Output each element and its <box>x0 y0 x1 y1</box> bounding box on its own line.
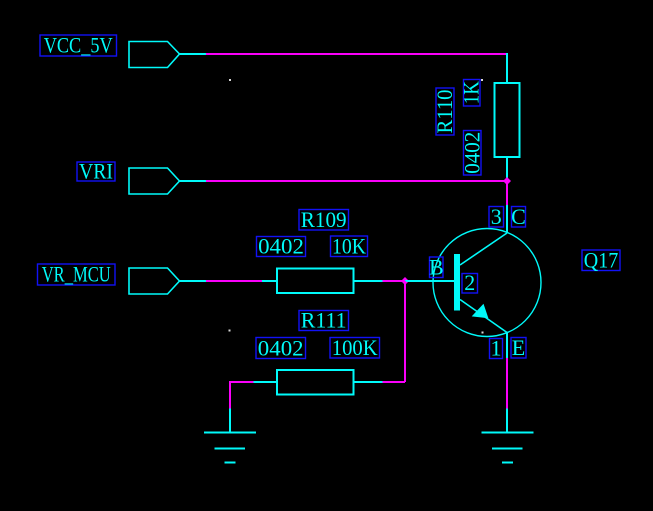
svg-text:0402: 0402 <box>258 234 304 259</box>
svg-text:VRI: VRI <box>79 158 113 183</box>
port VCC_5V <box>129 42 180 68</box>
transistor Q17 circle <box>433 229 541 337</box>
wire R111 to ground corner (magenta) <box>230 381 254 383</box>
pin number 3 <box>489 204 504 229</box>
svg-text:C: C <box>511 204 526 229</box>
wire to R111 right (magenta) <box>383 381 406 383</box>
wire R109 left pin (cyan) <box>262 280 277 282</box>
wire R111 right pin (cyan) <box>354 381 383 383</box>
port VR_MCU <box>129 268 180 294</box>
transistor Q17 emitter arrow <box>472 304 489 319</box>
transistor Q17 base bar <box>454 254 460 311</box>
grid dot <box>229 330 231 332</box>
grid dot <box>482 332 484 334</box>
svg-text:R111: R111 <box>301 307 347 332</box>
label 0402 (R109) <box>257 234 306 259</box>
wire R109 right pin (cyan) <box>354 280 383 282</box>
wire VCC_5V horizontal (magenta) <box>206 53 508 55</box>
svg-text:R110: R110 <box>432 90 457 134</box>
wire R109 to junction (magenta) <box>383 280 406 282</box>
wire base (cyan) <box>405 280 454 282</box>
svg-text:1: 1 <box>491 336 502 361</box>
svg-text:100K: 100K <box>332 335 378 360</box>
ground right <box>482 433 534 463</box>
label VCC_5V <box>40 33 117 58</box>
label 10K <box>331 234 368 259</box>
svg-text:10K: 10K <box>332 234 366 259</box>
svg-text:B: B <box>429 255 444 280</box>
junction node base <box>401 277 409 285</box>
wire junction to collector (magenta) <box>506 181 508 205</box>
label 1K <box>459 80 484 107</box>
ground left <box>204 433 256 463</box>
wire collector pin (cyan) <box>506 205 508 233</box>
wire R110 bottom pin <box>506 157 508 181</box>
wire R111 left pin (cyan) <box>254 381 278 383</box>
label VRI <box>77 158 115 183</box>
ground stem right (cyan) <box>506 409 508 433</box>
wire R110 top pin <box>506 53 508 83</box>
svg-text:R109: R109 <box>301 207 347 232</box>
grid dot <box>481 79 483 81</box>
svg-text:VR_MCU: VR_MCU <box>42 262 111 287</box>
grid dot <box>229 79 231 81</box>
label R109 <box>299 207 349 232</box>
svg-text:Q17: Q17 <box>584 247 619 272</box>
svg-text:0402: 0402 <box>258 335 304 360</box>
label 100K <box>330 335 380 360</box>
label Q17 <box>582 247 620 272</box>
label 0402 (R110) <box>460 131 485 176</box>
resistor R110 body <box>495 83 520 157</box>
wire VRI horizontal (magenta) <box>206 180 507 182</box>
label 0402 (R111) <box>256 335 306 360</box>
pin name C <box>511 204 526 229</box>
transistor Q17 collector line <box>460 233 507 265</box>
pin name B <box>429 255 444 280</box>
junction node VRI/R110/collector <box>503 177 511 185</box>
wire stub VCC_5V (cyan) <box>180 53 207 55</box>
label VR_MCU <box>38 262 116 287</box>
svg-text:1K: 1K <box>459 81 484 104</box>
ground stem left (cyan) <box>229 409 231 433</box>
wire stub VR_MCU (cyan) <box>180 280 207 282</box>
transistor Q17 emitter line <box>460 300 507 333</box>
wire stub VRI (cyan) <box>180 180 207 182</box>
wire VR_MCU horizontal (magenta) <box>206 280 262 282</box>
svg-text:0402: 0402 <box>460 132 485 174</box>
wire emitter to ground (magenta) <box>506 358 508 409</box>
wire ground drop (magenta) <box>229 381 231 409</box>
resistor R111 body <box>277 370 354 395</box>
port VRI <box>129 168 180 194</box>
resistor R109 body <box>277 269 354 294</box>
wire emitter pin (cyan) <box>506 333 508 359</box>
pin name E <box>511 335 526 360</box>
svg-text:2: 2 <box>464 270 475 295</box>
svg-text:3: 3 <box>491 204 502 229</box>
svg-text:VCC_5V: VCC_5V <box>44 33 113 58</box>
pin number 1 <box>490 336 503 361</box>
pin number 2 <box>462 270 478 295</box>
svg-text:E: E <box>512 335 525 360</box>
label R111 <box>299 307 349 332</box>
label R110 <box>432 88 457 135</box>
wire junction down (magenta) <box>404 281 406 382</box>
